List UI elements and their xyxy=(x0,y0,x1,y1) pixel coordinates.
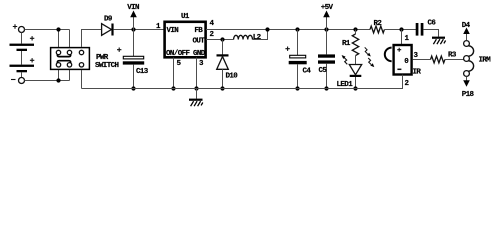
wire IR pin2 to ground rail xyxy=(402,75,404,89)
connector pin IRM xyxy=(464,56,470,62)
wire battery+ to switch xyxy=(25,30,70,48)
regulator U1 xyxy=(165,22,206,58)
svg-text:LED1: LED1 xyxy=(337,81,354,89)
resistor R3 xyxy=(431,52,464,63)
node pin3/ground rail xyxy=(194,86,198,90)
ground rail xyxy=(82,75,403,89)
node R1/+5V rail xyxy=(353,27,357,31)
wire switch pin3 top to D9 xyxy=(82,30,102,48)
node R2/C6/IR junction xyxy=(399,27,403,31)
connector arc 2 xyxy=(468,61,473,71)
wire IR output to R3 xyxy=(413,59,431,61)
svg-text:D4: D4 xyxy=(462,22,471,30)
svg-text:OUT: OUT xyxy=(193,38,206,46)
ground symbol below U1 xyxy=(189,89,203,107)
resistor R2 xyxy=(370,20,417,33)
resistor R1 xyxy=(342,30,359,65)
connector pin P18 xyxy=(464,71,470,77)
wire between cells xyxy=(21,51,23,65)
wire U1 OUT xyxy=(206,39,234,41)
svg-text:SWITCH: SWITCH xyxy=(95,62,119,70)
wire R2 node to IR module pin1 xyxy=(401,30,403,45)
node C13/ground rail xyxy=(131,86,135,90)
signal flag P18 xyxy=(462,77,475,100)
svg-text:VIN: VIN xyxy=(167,27,179,35)
battery BT1 positive terminal xyxy=(13,24,25,32)
svg-text:IR: IR xyxy=(413,69,422,77)
wire battery- to switch xyxy=(25,70,70,81)
node C5/ground rail xyxy=(324,86,328,90)
diode D10 xyxy=(217,40,239,89)
svg-text:C13: C13 xyxy=(136,68,149,76)
svg-text:GND: GND xyxy=(193,50,206,58)
battery cell 2 xyxy=(10,58,35,72)
IR light arrow 1 xyxy=(365,47,371,56)
diode D9 xyxy=(102,16,114,36)
svg-text:R1: R1 xyxy=(342,40,351,48)
inductor L2 xyxy=(234,30,268,43)
signal flag D4 xyxy=(462,22,471,40)
LED LED1 xyxy=(337,55,362,89)
svg-text:P18: P18 xyxy=(462,91,475,99)
node C4/ground rail xyxy=(295,86,299,90)
node LED1/ground rail xyxy=(353,86,357,90)
svg-text:VIN: VIN xyxy=(127,4,139,12)
capacitor C5 xyxy=(318,30,335,89)
node battery+/switch junction xyxy=(56,27,60,31)
battery cell 1 xyxy=(10,36,35,51)
svg-text:PWR: PWR xyxy=(96,54,109,62)
node D10/ground rail xyxy=(220,86,224,90)
label PWR SWITCH xyxy=(95,54,119,70)
node L2/+5V rail xyxy=(265,27,269,31)
svg-text:C5: C5 xyxy=(319,67,328,75)
svg-text:R3: R3 xyxy=(448,52,457,60)
ground symbol near C6 xyxy=(432,37,446,45)
power flag VIN xyxy=(127,4,139,30)
wire battery internal top xyxy=(21,33,23,44)
svg-text:+5V: +5V xyxy=(321,4,334,12)
svg-text:R2: R2 xyxy=(374,20,383,28)
svg-text:L2: L2 xyxy=(253,34,262,42)
svg-text:D9: D9 xyxy=(104,16,113,24)
battery BT1 negative terminal xyxy=(11,78,25,84)
wire U1 pin3 to ground rail xyxy=(196,58,198,89)
capacitor C4 xyxy=(285,30,311,89)
node C4/+5V rail xyxy=(295,27,299,31)
svg-text:ON/OFF: ON/OFF xyxy=(166,50,191,58)
wire U1 FB / +5V rail xyxy=(206,29,370,31)
svg-text:D10: D10 xyxy=(226,73,239,81)
power flag +5V xyxy=(321,4,334,30)
svg-text:IRM: IRM xyxy=(479,57,492,65)
node VIN junction xyxy=(131,27,135,31)
IR receiver module IR xyxy=(385,45,422,77)
switch S1 PWR SWITCH xyxy=(51,48,90,70)
wire switch pin3 bottom to ground rail xyxy=(81,70,83,89)
wire U1 pin5 to ground rail xyxy=(173,58,175,89)
capacitor C6 xyxy=(416,20,439,37)
svg-text:U1: U1 xyxy=(181,13,190,21)
connector pin D4 xyxy=(464,41,470,47)
svg-text:FB: FB xyxy=(194,27,203,35)
wire D9 to U1 xyxy=(114,29,164,31)
svg-text:C6: C6 xyxy=(428,20,437,28)
node battery-/switch junction xyxy=(56,78,60,82)
svg-text:C4: C4 xyxy=(303,68,312,76)
IR light arrow 2 xyxy=(368,58,374,67)
node +5V/C5 rail junction xyxy=(324,27,328,31)
wire cell2 to negative terminal xyxy=(21,72,23,77)
capacitor C13 xyxy=(117,30,149,89)
node OUT/D10 junction xyxy=(220,37,224,41)
node pin5/ground rail xyxy=(171,86,175,90)
connector arc 1 xyxy=(468,46,473,56)
